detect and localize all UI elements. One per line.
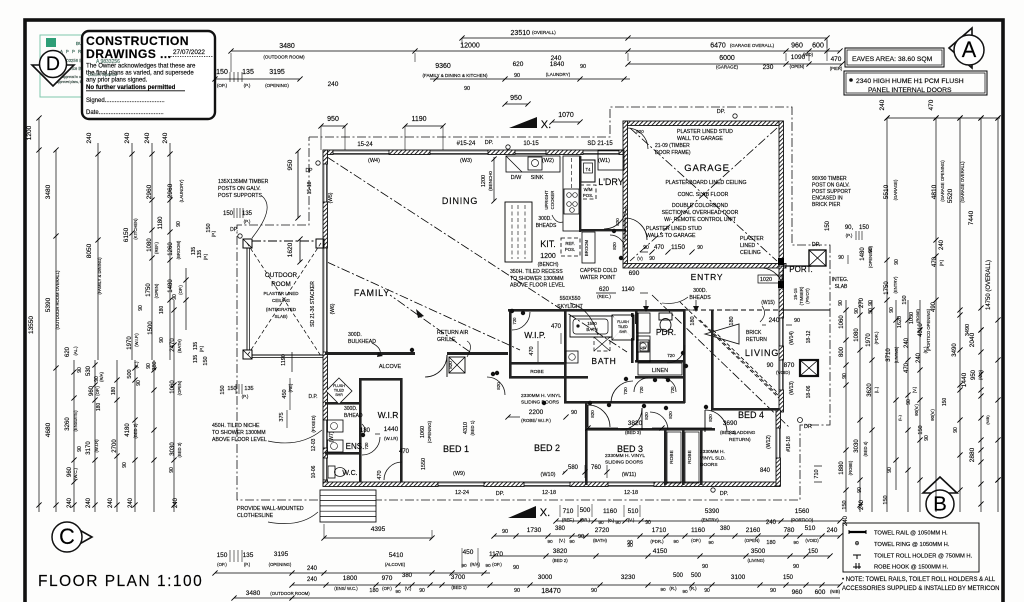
svg-text:(P.): (P.) [199, 345, 204, 352]
svg-text:TO SHOWER 1300MM: TO SHOWER 1300MM [510, 276, 564, 282]
svg-text:90: 90 [868, 247, 874, 253]
svg-text:(W5): (W5) [328, 192, 334, 203]
svg-text:LINED: LINED [740, 243, 756, 249]
svg-text:90: 90 [704, 588, 710, 594]
svg-text:3700: 3700 [451, 574, 466, 581]
svg-text:FLUSH: FLUSH [617, 320, 629, 324]
svg-text:470: 470 [654, 245, 665, 251]
svg-text:90: 90 [868, 308, 874, 314]
svg-text:3820: 3820 [628, 420, 643, 427]
svg-text:4680: 4680 [45, 422, 52, 437]
svg-text:(W9): (W9) [453, 471, 465, 477]
svg-text:3500: 3500 [751, 548, 766, 555]
svg-text:CAPPED COLD: CAPPED COLD [580, 268, 617, 274]
svg-text:BULKHEAD: BULKHEAD [348, 339, 376, 345]
svg-text:SLIDING DOORS: SLIDING DOORS [605, 460, 643, 466]
svg-text:90: 90 [176, 221, 182, 227]
svg-text:(R/A): (R/A) [470, 562, 481, 567]
svg-text:EAVES AREA: 38.60 SQM: EAVES AREA: 38.60 SQM [852, 56, 933, 63]
svg-text:TOILET ROLL HOLDER @ 750MM H.: TOILET ROLL HOLDER @ 750MM H. [874, 554, 973, 560]
svg-text:(OPEN): (OPEN) [744, 538, 760, 543]
svg-text:180: 180 [159, 306, 165, 315]
svg-text:90: 90 [889, 307, 895, 313]
svg-text:2160: 2160 [746, 527, 761, 534]
svg-text:3230: 3230 [621, 574, 636, 581]
svg-text:1160: 1160 [691, 527, 705, 534]
svg-text:240: 240 [144, 132, 151, 143]
svg-text:SD 21-15: SD 21-15 [587, 141, 613, 147]
svg-text:18-06: 18-06 [806, 385, 812, 398]
svg-text:90: 90 [615, 520, 621, 526]
svg-text:240: 240 [124, 132, 131, 143]
svg-text:950: 950 [327, 116, 339, 123]
svg-text:240: 240 [128, 497, 134, 508]
svg-text:90: 90 [514, 588, 520, 594]
svg-text:800: 800 [839, 346, 845, 357]
svg-text:PLASTER LINED STUD: PLASTER LINED STUD [646, 226, 702, 232]
svg-text:135: 135 [243, 552, 254, 559]
svg-text:2330MM H.: 2330MM H. [700, 449, 725, 455]
svg-text:(P.): (P.) [244, 219, 251, 224]
svg-text:SINK: SINK [531, 175, 544, 181]
svg-text:(REF.): (REF.) [154, 241, 159, 253]
svg-text:(CLADDING: (CLADDING [729, 430, 756, 436]
svg-text:(PDR.): (PDR.) [650, 539, 664, 544]
svg-text:RETURN AIR: RETURN AIR [437, 330, 469, 336]
svg-text:90: 90 [793, 540, 799, 546]
svg-text:Date..........................: Date....................................… [86, 110, 164, 116]
svg-text:90: 90 [697, 245, 703, 251]
svg-text:(P.): (P.) [203, 253, 208, 260]
svg-text:1080: 1080 [147, 238, 153, 252]
svg-text:470: 470 [551, 324, 562, 330]
svg-text:150: 150 [227, 386, 236, 392]
svg-text:(OP.): (OP.) [492, 562, 502, 567]
svg-text:240: 240 [916, 352, 922, 363]
svg-text:240: 240 [859, 499, 865, 510]
svg-text:(W2): (W2) [542, 158, 554, 164]
svg-text:(BED 2): (BED 2) [552, 558, 568, 563]
svg-text:(GARAGE): (GARAGE) [893, 179, 898, 200]
svg-text:1140: 1140 [622, 287, 636, 293]
svg-text:270: 270 [859, 297, 865, 308]
svg-text:90: 90 [169, 467, 175, 473]
svg-text:150: 150 [783, 575, 794, 581]
svg-text:1150: 1150 [671, 244, 685, 251]
svg-text:5390: 5390 [45, 297, 52, 312]
svg-text:(OP.): (OP.) [382, 586, 392, 591]
svg-text:90: 90 [547, 539, 553, 545]
svg-text:FAMILY: FAMILY [354, 288, 390, 298]
svg-text:90: 90 [838, 300, 844, 306]
svg-text:FLUSH: FLUSH [333, 384, 345, 388]
svg-text:90: 90 [708, 540, 714, 546]
svg-text:970: 970 [382, 575, 393, 582]
svg-text:90(V.): 90(V.) [914, 404, 919, 416]
svg-text:1880: 1880 [839, 461, 845, 475]
svg-text:820: 820 [644, 412, 649, 420]
svg-text:470: 470 [529, 346, 535, 355]
svg-text:POST SUPPORTS: POST SUPPORTS [218, 193, 262, 199]
svg-text:720: 720 [364, 442, 369, 450]
svg-text:90: 90 [660, 587, 666, 593]
svg-text:BED 4: BED 4 [738, 410, 764, 420]
svg-text:(V.): (V.) [559, 538, 566, 543]
svg-text:PORT.: PORT. [789, 265, 812, 274]
svg-text:(W.I.R): (W.I.R) [94, 439, 99, 453]
svg-text:240: 240 [904, 337, 910, 348]
svg-text:620: 620 [65, 346, 71, 357]
svg-text:RETURN: RETURN [746, 337, 767, 343]
svg-text:90: 90 [461, 563, 467, 569]
svg-text:240: 240 [162, 132, 169, 143]
svg-text:D.P.: D.P. [308, 394, 317, 400]
svg-text:2960: 2960 [146, 184, 153, 199]
svg-text:(PDR.): (PDR.) [874, 331, 879, 344]
svg-text:510: 510 [628, 508, 639, 515]
svg-text:9360: 9360 [435, 63, 451, 70]
svg-text:BHEADS: BHEADS [689, 295, 711, 301]
svg-text:720: 720 [639, 386, 644, 394]
svg-text:(VOID): (VOID) [776, 370, 791, 375]
svg-text:DP.: DP. [717, 109, 726, 115]
svg-text:(L.): (L.) [874, 386, 879, 393]
svg-text:(ROBE/ W.I.P.): (ROBE/ W.I.P.) [521, 418, 551, 423]
svg-text:820: 820 [708, 414, 713, 422]
svg-text:(ROBE): (ROBE) [915, 308, 920, 323]
svg-text:1060: 1060 [839, 315, 845, 329]
svg-text:3490: 3490 [952, 343, 958, 357]
svg-text:180: 180 [729, 316, 735, 325]
svg-text:1260: 1260 [168, 242, 174, 256]
svg-text:1200: 1200 [26, 125, 33, 140]
svg-text:2470: 2470 [170, 338, 176, 352]
svg-text:POST ON GALV.: POST ON GALV. [812, 183, 850, 189]
svg-text:90: 90 [857, 487, 863, 493]
svg-text:(BATH): (BATH) [177, 339, 182, 353]
svg-text:1440: 1440 [961, 372, 968, 387]
svg-text:(OP.): (OP.) [178, 285, 183, 295]
svg-text:3195: 3195 [274, 551, 289, 558]
svg-text:135: 135 [242, 69, 254, 76]
svg-text:530: 530 [86, 365, 92, 376]
svg-text:90: 90 [770, 588, 776, 594]
svg-text:3260: 3260 [65, 417, 71, 431]
svg-text:135X135MM TIMBER: 135X135MM TIMBER [218, 179, 269, 185]
svg-text:(R.): (R.) [669, 586, 677, 591]
svg-text:90: 90 [767, 363, 774, 369]
svg-text:90: 90 [643, 245, 649, 251]
svg-text:BATH: BATH [591, 356, 616, 366]
svg-text:#18-18: #18-18 [786, 436, 792, 452]
svg-text:90: 90 [906, 399, 912, 405]
svg-text:90: 90 [94, 376, 100, 382]
svg-text:BROOM: BROOM [584, 239, 589, 256]
svg-text:ALCOVE: ALCOVE [379, 364, 402, 370]
svg-text:(PIER): (PIER) [830, 66, 843, 71]
svg-text:1160: 1160 [603, 508, 617, 515]
svg-text:WALLS TO GARAGE: WALLS TO GARAGE [646, 233, 696, 239]
svg-text:BHEADS: BHEADS [536, 223, 557, 229]
svg-text:18-12: 18-12 [806, 330, 812, 343]
svg-text:820: 820 [636, 129, 644, 134]
svg-text:5520: 5520 [947, 188, 954, 203]
svg-text:(LIVING): (LIVING) [894, 346, 899, 363]
svg-text:(W.I.R): (W.I.R) [384, 436, 398, 441]
svg-text:TOWEL RING @ 1050MM H.: TOWEL RING @ 1050MM H. [874, 542, 950, 548]
svg-text:3170: 3170 [86, 441, 92, 455]
svg-text:150: 150 [859, 225, 870, 231]
svg-text:150: 150 [216, 69, 228, 76]
svg-text:135: 135 [244, 386, 253, 392]
svg-text:10-06: 10-06 [311, 465, 317, 478]
svg-text:90: 90 [578, 534, 584, 540]
svg-text:(W3): (W3) [460, 158, 472, 164]
svg-text:DR: DR [804, 424, 812, 430]
svg-text:1560: 1560 [795, 508, 810, 515]
svg-text:15-24: 15-24 [357, 142, 373, 148]
svg-text:380: 380 [555, 526, 566, 532]
svg-text:W.I.R: W.I.R [378, 410, 399, 420]
svg-text:Signed........................: Signed..................................… [86, 98, 165, 104]
svg-text:1200: 1200 [540, 253, 556, 260]
svg-text:780: 780 [784, 527, 795, 534]
svg-text:(PIVOT): (PIVOT) [805, 288, 810, 304]
svg-text:(KITCHEN): (KITCHEN) [133, 218, 138, 240]
svg-text:710: 710 [814, 469, 820, 478]
svg-text:(ALCOVE): (ALCOVE) [385, 562, 406, 567]
svg-text:REF.: REF. [565, 241, 574, 246]
svg-text:SLIDING DOORS: SLIDING DOORS [521, 400, 559, 406]
svg-text:(OUTDOOR ROOM): (OUTDOOR ROOM) [263, 55, 305, 60]
svg-text:DP: DP [306, 168, 314, 174]
svg-text:B/HEAD: B/HEAD [344, 413, 363, 419]
svg-text:4150: 4150 [653, 548, 668, 555]
svg-text:ENS.: ENS. [346, 442, 365, 451]
svg-text:W.C.: W.C. [342, 470, 357, 477]
svg-text:380: 380 [152, 361, 158, 370]
svg-text:(BR.): (BR.) [580, 518, 591, 523]
svg-text:(BENCH): (BENCH) [538, 262, 559, 268]
svg-text:DP.: DP. [485, 140, 494, 146]
svg-text:D/W: D/W [511, 175, 523, 181]
svg-text:90: 90 [77, 367, 83, 373]
svg-text:3480: 3480 [246, 590, 261, 597]
svg-text:GARAGE: GARAGE [684, 163, 729, 174]
svg-text:(ENTRY): (ENTRY) [701, 518, 719, 523]
svg-text:(GARAGE OVERALL): (GARAGE OVERALL) [960, 161, 965, 203]
svg-text:470: 470 [928, 99, 935, 110]
svg-text:375: 375 [279, 412, 285, 421]
svg-text:720: 720 [512, 317, 517, 325]
svg-text:3710: 3710 [886, 348, 892, 362]
svg-text:180: 180 [369, 588, 378, 594]
svg-text:(FIXED): (FIXED) [311, 415, 317, 433]
svg-text:(ENTRY): (ENTRY) [893, 276, 898, 294]
svg-text:2960: 2960 [167, 183, 174, 198]
svg-text:135: 135 [193, 355, 199, 364]
svg-text:#15-24: #15-24 [457, 141, 476, 147]
svg-text:90: 90 [77, 446, 83, 452]
svg-text:240: 240 [108, 497, 114, 508]
svg-text:25-15: 25-15 [793, 288, 798, 300]
svg-text:BED 2: BED 2 [534, 443, 560, 453]
svg-text:(W7): (W7) [329, 431, 335, 442]
svg-text:240: 240 [307, 577, 318, 583]
svg-text:ROBE: ROBE [669, 450, 675, 464]
svg-text:(LAUNDRY): (LAUNDRY) [546, 72, 571, 77]
svg-text:150: 150 [223, 211, 234, 217]
svg-text:90,: 90, [845, 225, 854, 231]
svg-text:SLAB): SLAB) [274, 314, 288, 319]
svg-text:1170: 1170 [489, 551, 503, 558]
svg-text:500: 500 [127, 369, 133, 378]
svg-text:300D.: 300D. [344, 406, 357, 412]
svg-text:90: 90 [838, 255, 844, 261]
svg-text:C: C [59, 524, 75, 549]
svg-text:90: 90 [172, 294, 178, 300]
svg-text:1750: 1750 [146, 283, 152, 297]
svg-text:(OP.): (OP.) [691, 538, 701, 543]
svg-text:90: 90 [136, 380, 142, 386]
svg-text:90: 90 [419, 588, 425, 594]
svg-text:240: 240 [328, 81, 339, 88]
svg-text:580: 580 [568, 465, 579, 471]
svg-text:90: 90 [887, 467, 893, 473]
svg-text:550X550: 550X550 [560, 296, 581, 302]
svg-text:(OVERALL): (OVERALL) [532, 30, 556, 35]
svg-text:(L.): (L.) [897, 414, 902, 421]
svg-text:820: 820 [590, 410, 595, 418]
svg-text:3690: 3690 [723, 420, 738, 427]
svg-text:180: 180 [690, 316, 696, 325]
svg-text:SLAB: SLAB [835, 284, 848, 290]
svg-text:90X90 TIMBER: 90X90 TIMBER [812, 176, 847, 182]
svg-text:(BENCH0: (BENCH0 [488, 171, 493, 191]
svg-text:620: 620 [599, 287, 610, 293]
svg-text:240: 240 [67, 497, 73, 508]
svg-text:90: 90 [571, 410, 577, 416]
svg-text:500: 500 [691, 573, 702, 579]
svg-text:760: 760 [591, 465, 602, 471]
svg-text:PANEL INTERNAL DOORS: PANEL INTERNAL DOORS [868, 87, 952, 94]
svg-text:2880: 2880 [969, 447, 976, 462]
svg-text:(W4): (W4) [368, 158, 380, 164]
svg-text:620: 620 [513, 61, 524, 68]
svg-text:(OUTDOOR ROOM OVERALL): (OUTDOOR ROOM OVERALL) [55, 270, 60, 329]
svg-text:(BED 3): (BED 3) [177, 442, 182, 457]
svg-text:(OUTDOOR ROOM): (OUTDOOR ROOM) [270, 591, 310, 596]
svg-text:18470: 18470 [541, 588, 561, 595]
svg-text:90: 90 [598, 520, 604, 526]
svg-text:BRICK: BRICK [746, 330, 762, 336]
svg-text:4310: 4310 [463, 422, 469, 434]
svg-text:180: 180 [766, 540, 775, 546]
svg-text:3030: 3030 [854, 439, 860, 453]
svg-text:1730: 1730 [527, 527, 542, 534]
svg-text:90: 90 [138, 305, 144, 311]
svg-text:W/M: W/M [584, 187, 593, 192]
svg-text:TO SHOWER 1300MM: TO SHOWER 1300MM [212, 430, 266, 436]
svg-text:470: 470 [831, 56, 842, 63]
svg-text:90: 90 [514, 73, 520, 79]
svg-text:ABOVE FLOOR LEVEL: ABOVE FLOOR LEVEL [510, 283, 565, 289]
svg-text:(PORTICO): (PORTICO) [791, 518, 814, 523]
svg-text:A: A [962, 37, 977, 62]
svg-text:13550: 13550 [28, 316, 35, 334]
svg-text:240: 240 [939, 239, 945, 250]
svg-text:No further variations permitte: No further variations permitted [86, 84, 176, 91]
svg-text:230: 230 [763, 64, 774, 71]
svg-text:135: 135 [242, 211, 253, 217]
svg-text:(NIB): (NIB) [830, 589, 841, 594]
svg-text:150: 150 [203, 356, 209, 365]
svg-text:4810: 4810 [931, 184, 938, 199]
svg-text:(0.): (0.) [608, 518, 615, 523]
svg-text:90: 90 [485, 563, 491, 569]
svg-text:LINEN: LINEN [652, 368, 668, 374]
svg-text:(OPEN): (OPEN) [154, 283, 159, 298]
svg-text:Daniel Spence: Daniel Spence [88, 72, 118, 77]
svg-text:2340 HIGH HUME H1 PCM FLUSH: 2340 HIGH HUME H1 PCM FLUSH [856, 78, 964, 85]
svg-text:90: 90 [591, 588, 597, 594]
svg-text:490: 490 [931, 301, 937, 312]
svg-text:ROBE HOOK @ 1500MM H.: ROBE HOOK @ 1500MM H. [874, 565, 949, 571]
svg-text:ENTRY: ENTRY [691, 272, 724, 282]
svg-text:(GARAGE OVERALL): (GARAGE OVERALL) [730, 43, 775, 48]
svg-text:3030: 3030 [170, 442, 176, 456]
svg-text:90: 90 [793, 564, 799, 570]
svg-text:TILED: TILED [618, 325, 628, 329]
svg-text:(BED 1): (BED 1) [451, 585, 467, 590]
svg-text:380: 380 [402, 573, 413, 579]
svg-text:7440: 7440 [968, 210, 975, 225]
svg-text:X.: X. [540, 507, 550, 519]
svg-text:PLASTER LINED: PLASTER LINED [263, 291, 299, 296]
svg-text:A 9833256: A 9833256 [96, 59, 120, 65]
svg-text:240: 240 [766, 520, 777, 526]
svg-text:6000: 6000 [719, 55, 735, 62]
svg-text:380: 380 [720, 526, 731, 532]
svg-text:2700: 2700 [112, 439, 118, 453]
svg-text:12000: 12000 [460, 43, 480, 50]
svg-text:(AL.): (AL.) [73, 346, 78, 356]
svg-text:VINYL SLD.: VINYL SLD. [700, 456, 726, 462]
svg-text:(OPEN): (OPEN) [177, 380, 182, 395]
svg-text:CONC. SLAB FLOOR: CONC. SLAB FLOOR [678, 192, 729, 198]
svg-text:POST SUPPORT: POST SUPPORT [812, 189, 851, 195]
svg-text:150: 150 [842, 500, 848, 509]
svg-text:90: 90 [794, 318, 800, 324]
svg-text:(OP.): (OP.) [217, 83, 228, 88]
svg-text:90: 90 [682, 589, 688, 595]
svg-text:2330MM H. VINYL: 2330MM H. VINYL [605, 453, 645, 459]
svg-text:15-18: 15-18 [307, 181, 313, 194]
svg-text:500: 500 [580, 507, 591, 514]
svg-text:ROOM: ROOM [271, 281, 291, 288]
svg-text:4910: 4910 [918, 323, 924, 337]
svg-text:90: 90 [894, 259, 900, 265]
svg-text:(LAUNDRY): (LAUNDRY) [179, 179, 184, 202]
svg-text:470: 470 [904, 362, 910, 373]
svg-text:470: 470 [932, 256, 938, 267]
svg-text:90: 90 [464, 86, 470, 92]
svg-text:KIT.: KIT. [540, 239, 556, 249]
svg-text:1060: 1060 [170, 380, 176, 394]
svg-text:840: 840 [760, 468, 771, 474]
svg-text:90(V.): 90(V.) [930, 409, 935, 421]
svg-text:(ENS/ W.C.): (ENS/ W.C.) [334, 586, 358, 591]
